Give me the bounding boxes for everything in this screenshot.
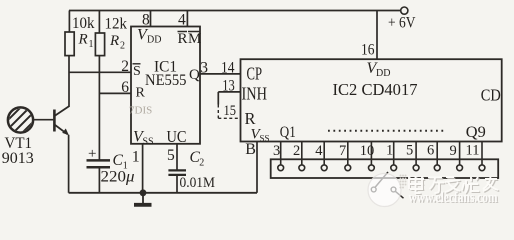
resistor R2 [95, 33, 104, 56]
resistor R1 [65, 32, 74, 56]
wire: C2 bottom lead [176, 175, 178, 193]
wire: pin 13 lead [218, 91, 240, 93]
svg-text:SS: SS [143, 137, 154, 148]
wire: emitter down [68, 135, 70, 193]
wire: ground bus [69, 192, 257, 194]
wire: IC1 pin 1 lead to ground [142, 144, 144, 193]
svg-text:2: 2 [120, 41, 125, 52]
svg-text:INH: INH [242, 83, 268, 103]
wire: lead pin 9 [459, 142, 461, 166]
wire: lead pin 11 [481, 142, 483, 166]
svg-text:2: 2 [121, 58, 129, 75]
svg-text:DD: DD [376, 68, 390, 79]
svg-text:7DIS: 7DIS [129, 105, 152, 117]
wire: mic to base [33, 119, 53, 121]
svg-text:2: 2 [199, 157, 204, 168]
svg-text:R: R [178, 31, 188, 47]
wire: lead pin 10 [370, 142, 372, 166]
svg-text:CD: CD [481, 86, 501, 105]
svg-text:CP: CP [247, 64, 263, 84]
svg-text:14: 14 [221, 60, 235, 77]
svg-text:13: 13 [222, 77, 235, 94]
wire: pin 4 lead [186, 11, 188, 27]
wire: lead pin 2 [301, 142, 303, 166]
wire: node to pin 6 (R) [99, 92, 131, 94]
wire: pin 16 lead [376, 11, 378, 60]
svg-text:3: 3 [273, 143, 280, 159]
wire: Q out lead pin 3 [280, 142, 282, 166]
svg-text:R: R [136, 86, 146, 101]
wire: junction 13 to 15 vertical [217, 92, 219, 105]
svg-text:B: B [245, 141, 256, 158]
wire: R2 bottom lead down to C1 [98, 56, 100, 160]
svg-text:1: 1 [132, 148, 140, 165]
wire: R2 top lead [98, 11, 100, 34]
svg-text:5: 5 [406, 143, 413, 159]
wire: lead pin 6 [436, 142, 438, 166]
ground [142, 193, 144, 204]
watermark dotted mark [400, 175, 407, 189]
wire: R1 bottom lead down to collector [68, 56, 70, 107]
svg-text:0.01M: 0.01M [180, 175, 216, 191]
connector contacts [278, 165, 485, 171]
watermark logo disc [368, 173, 402, 207]
svg-text:6: 6 [427, 143, 434, 159]
svg-text:R: R [109, 33, 119, 49]
svg-text:220μ: 220μ [101, 168, 135, 185]
svg-text:4: 4 [315, 143, 323, 159]
svg-text:2: 2 [293, 143, 300, 159]
wire: +V top rail [69, 10, 401, 12]
svg-text:1: 1 [386, 143, 393, 159]
wire: pin 8 lead [150, 11, 152, 27]
svg-text:10: 10 [360, 143, 375, 159]
svg-text:Q1: Q1 [280, 124, 296, 141]
svg-text:R: R [78, 32, 88, 48]
svg-text:S: S [133, 64, 141, 79]
microphone BM [2, 96, 43, 142]
svg-text:Q: Q [189, 67, 200, 83]
switch contact below pin 1 [371, 172, 403, 198]
op-amp U1: IC1 NE555 box [131, 27, 200, 144]
svg-text:9013: 9013 [2, 150, 34, 167]
wire: C1 bottom lead [98, 167, 100, 193]
wire: node to pin 2 (S) [69, 71, 131, 73]
wire: R1 top lead [68, 11, 70, 33]
wire: pin 3 to pin 14 [200, 73, 241, 75]
wire: dashed link to pin 15 [217, 105, 219, 119]
junction dot [140, 189, 147, 196]
svg-text:+: + [88, 146, 96, 162]
svg-text:7: 7 [339, 143, 346, 159]
wire: lead pin 4 [323, 142, 325, 166]
svg-text:R: R [245, 109, 256, 128]
dotted line Q1..Q9 [328, 130, 446, 132]
svg-text:6: 6 [121, 79, 129, 96]
svg-text:16: 16 [361, 41, 375, 58]
svg-text:9: 9 [450, 143, 457, 159]
capacitor C1 (electrolytic) [87, 159, 111, 162]
wire: VSS (B) lead of IC2 [256, 142, 258, 193]
terminal +6V [401, 7, 408, 14]
wire: lead pin 7 [347, 142, 349, 166]
svg-text:M: M [188, 31, 201, 47]
svg-text:3: 3 [200, 60, 208, 77]
IC2 CD4017 box [241, 59, 502, 141]
wire: lead pin 1 [393, 142, 395, 166]
svg-text:DD: DD [147, 35, 161, 46]
svg-text:SS: SS [260, 134, 270, 144]
svg-text:www.elecfans.com: www.elecfans.com [409, 190, 498, 206]
svg-text:1: 1 [89, 39, 94, 50]
svg-text:10k: 10k [72, 15, 95, 32]
wire: lead pin 5 [415, 142, 417, 166]
svg-text:IC2 CD4017: IC2 CD4017 [333, 80, 418, 99]
connector strip [271, 159, 499, 178]
svg-text:15: 15 [224, 103, 237, 119]
svg-text:4: 4 [178, 11, 186, 28]
capacitor C2 [168, 169, 186, 171]
svg-text:NE555: NE555 [145, 72, 187, 89]
transistor VT1 [54, 106, 69, 135]
svg-text:11: 11 [466, 143, 480, 159]
wire: IC1 pin 5 lead [176, 144, 178, 170]
output leads and pin numbers [281, 142, 482, 166]
svg-text:UC: UC [167, 127, 187, 146]
svg-text:+ 6V: + 6V [388, 15, 416, 32]
svg-text:Q9: Q9 [466, 124, 486, 141]
watermark chinese glyphs (approximated) [410, 177, 499, 194]
svg-text:5: 5 [167, 147, 175, 164]
svg-text:12k: 12k [105, 16, 128, 33]
